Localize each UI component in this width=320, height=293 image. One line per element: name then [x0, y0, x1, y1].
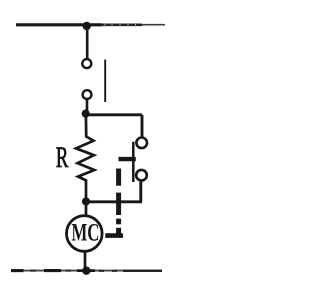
op coil MC circle	[67, 216, 103, 252]
mechanical linkage dashed line segment 2	[116, 193, 121, 215]
mechanical linkage dashed line segment 3	[116, 219, 121, 225]
wire below contact down to bottom branch	[139, 182, 142, 202]
svg-text:MC: MC	[72, 218, 100, 246]
node junction dot above resistor	[82, 110, 90, 118]
svg-text:R: R	[56, 142, 69, 174]
wire from top rail down to pushbutton	[86, 26, 89, 59]
wire top supply rail	[16, 23, 165, 27]
resistor R body with connecting wires	[76, 114, 94, 202]
pushbutton PB upper terminal circle	[82, 59, 91, 68]
pushbutton PB operator bar	[104, 60, 106, 103]
contact MC-a upper terminal circle	[136, 138, 147, 149]
node junction dot on top rail	[83, 22, 91, 30]
wire right branch vertical down to contact	[141, 115, 144, 137]
pushbutton PB lower terminal circle	[83, 90, 92, 99]
wire bottom supply rail	[11, 270, 162, 272]
wire branch to the right contact	[86, 113, 142, 116]
mechanical linkage dashed line corner segment	[116, 228, 121, 234]
node junction dot on bottom rail	[82, 267, 90, 275]
contact MC-a lower terminal circle	[136, 170, 147, 181]
contact MC-a movable blade	[132, 142, 135, 182]
node junction dot above coil	[82, 197, 90, 205]
wire from junction to coil	[85, 202, 88, 216]
wire bottom branch back to main line	[86, 200, 142, 203]
contact MC-a actuator bar	[119, 157, 136, 161]
mechanical linkage dashed line segment 1	[116, 169, 121, 186]
wire stub below pushbutton	[86, 99, 89, 112]
mechanical linkage dash into coil	[105, 233, 123, 238]
wire coil to bottom rail	[84, 252, 87, 270]
